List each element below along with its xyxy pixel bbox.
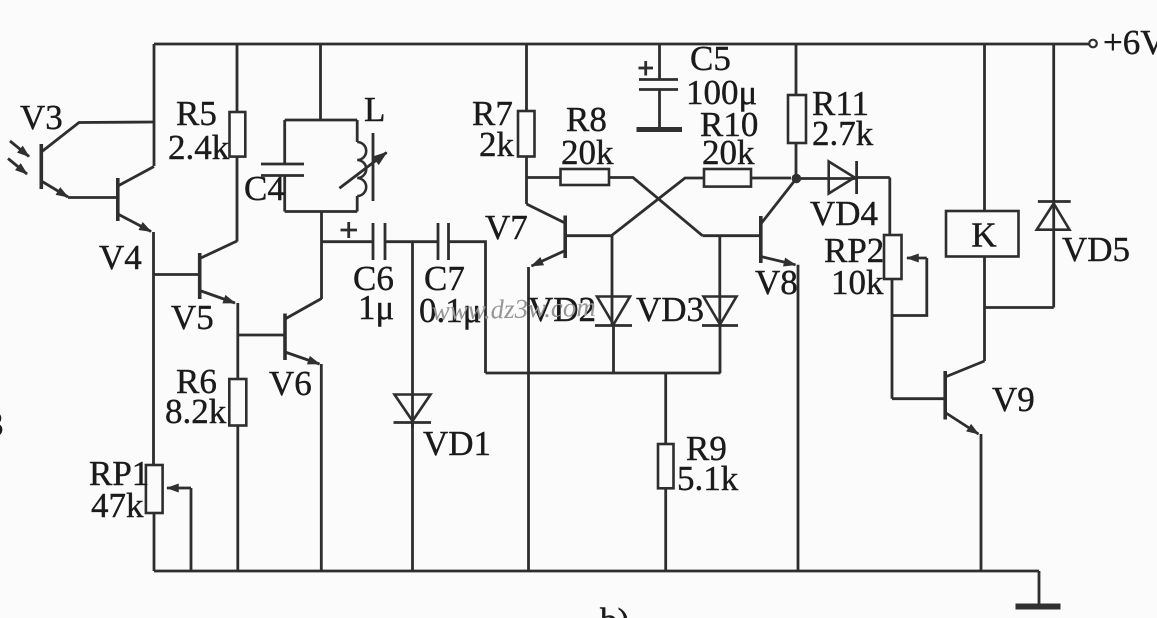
resistor R7	[518, 111, 535, 157]
wire V9 collector to relay	[983, 257, 986, 362]
wire RP1 to ground rail	[153, 513, 156, 571]
wire R11 to node	[795, 143, 798, 179]
wire ground drop	[1038, 571, 1041, 604]
wire rail to tank top	[319, 44, 322, 120]
wire VD4 to RP2	[888, 178, 891, 236]
svg-text:V4: V4	[99, 238, 142, 277]
wire C7 to common line	[449, 242, 486, 373]
wire tank to C6	[322, 240, 374, 243]
wire C6 to C7	[385, 240, 438, 243]
wire V3 collector	[41, 122, 154, 152]
wire rail to R5	[236, 44, 239, 112]
capacitor C7	[438, 223, 449, 260]
svg-text:V6: V6	[269, 364, 312, 403]
resistor R5	[230, 112, 246, 157]
svg-text:C4: C4	[244, 169, 285, 208]
svg-text:2.4k: 2.4k	[168, 128, 230, 167]
wire R8 to V8 base	[609, 178, 703, 236]
svg-text:2.7k: 2.7k	[812, 114, 874, 153]
svg-text:b): b)	[600, 601, 629, 618]
resistor R9	[658, 444, 674, 488]
wire common emitter line	[486, 372, 721, 375]
relay K	[946, 211, 1019, 257]
wire R9 to ground	[664, 488, 667, 571]
potentiometer RP2	[884, 235, 927, 399]
ground	[1016, 604, 1061, 610]
svg-text:VD4: VD4	[810, 194, 878, 233]
inductor L	[339, 133, 386, 201]
potentiometer RP1	[146, 465, 191, 571]
transistor V9	[945, 361, 984, 434]
wire left vertical rail-to-V4-collector	[153, 44, 156, 166]
transistor V6	[285, 299, 322, 365]
transistor V7	[527, 204, 612, 266]
svg-text:2k: 2k	[479, 125, 515, 164]
svg-text:100μ: 100μ	[686, 73, 757, 112]
diode VD4	[801, 161, 890, 194]
svg-text:www.dz3w.com: www.dz3w.com	[431, 292, 596, 326]
svg-text:V7: V7	[485, 208, 528, 247]
svg-text:K: K	[971, 216, 996, 255]
svg-text:10k: 10k	[831, 263, 884, 302]
wire V5 base	[154, 273, 199, 276]
resistor R10	[704, 169, 751, 187]
svg-text:VD1: VD1	[423, 424, 491, 463]
transistor V8	[703, 182, 796, 265]
wire R7 to V7	[525, 157, 528, 205]
wire rail to R11	[795, 44, 798, 95]
node junction dot	[792, 174, 802, 184]
transistor V4	[118, 167, 154, 232]
svg-text:VD5: VD5	[1062, 230, 1130, 269]
wire top +6V rail	[154, 43, 1089, 46]
resistor R8	[561, 169, 610, 185]
wire RP2 to V9 base	[892, 397, 944, 400]
wire V5 emitter to R6	[236, 303, 239, 379]
capacitor C6	[373, 223, 385, 260]
transistor V5	[200, 241, 237, 303]
svg-text:20k: 20k	[702, 133, 755, 172]
plus sign C5	[639, 61, 654, 76]
svg-text:VD3: VD3	[636, 290, 704, 329]
wire relay to rail	[983, 44, 986, 211]
wire VD5 to V9 collector	[985, 306, 1054, 309]
svg-text:3: 3	[0, 405, 4, 444]
svg-text:V5: V5	[171, 298, 214, 337]
wire common line to R9	[664, 373, 667, 444]
diode VD5	[1037, 202, 1071, 308]
capacitor C5	[637, 44, 683, 130]
wire rail to R7	[525, 44, 528, 111]
wire V7 emitter to ground	[527, 267, 530, 571]
wire left vertical V4-emitter to RP1	[152, 232, 155, 465]
LC tank loop	[285, 120, 358, 212]
wire bottom ground rail	[154, 570, 1039, 573]
resistor R6	[229, 379, 246, 426]
svg-text:V8: V8	[755, 263, 798, 302]
wire V6 collector to tank	[320, 211, 323, 299]
wire V7 base to R10	[611, 178, 704, 236]
wire R6 to ground rail	[236, 426, 239, 572]
diode VD3	[702, 236, 738, 373]
wire V9 emitter to ground	[980, 434, 983, 571]
wire to R8	[527, 176, 561, 179]
wire R10 to node	[751, 177, 791, 180]
svg-text:47k: 47k	[91, 486, 144, 525]
wire rail to VD5	[1052, 44, 1055, 229]
diode VD2	[595, 236, 632, 373]
svg-text:20k: 20k	[561, 133, 614, 172]
wire V6 base	[238, 334, 284, 337]
wire R5 to V5 collector	[236, 157, 239, 242]
svg-text:8.2k: 8.2k	[165, 392, 227, 431]
wire V8 emitter to ground	[797, 265, 800, 571]
svg-text:L: L	[364, 90, 385, 129]
wire V6 emitter to ground	[320, 364, 323, 571]
+6V terminal	[1089, 40, 1097, 48]
svg-text:V9: V9	[992, 380, 1035, 419]
wire VD1 branch	[411, 242, 414, 428]
svg-text:1μ: 1μ	[358, 288, 394, 327]
capacitor C4	[261, 164, 304, 176]
phototransistor V3	[8, 141, 116, 198]
resistor R11	[788, 95, 806, 143]
svg-text:5.1k: 5.1k	[677, 459, 739, 498]
svg-text:+6V: +6V	[1103, 23, 1157, 62]
svg-text:V3: V3	[20, 98, 63, 137]
plus sign C6	[341, 222, 358, 238]
diode VD1	[394, 395, 432, 572]
